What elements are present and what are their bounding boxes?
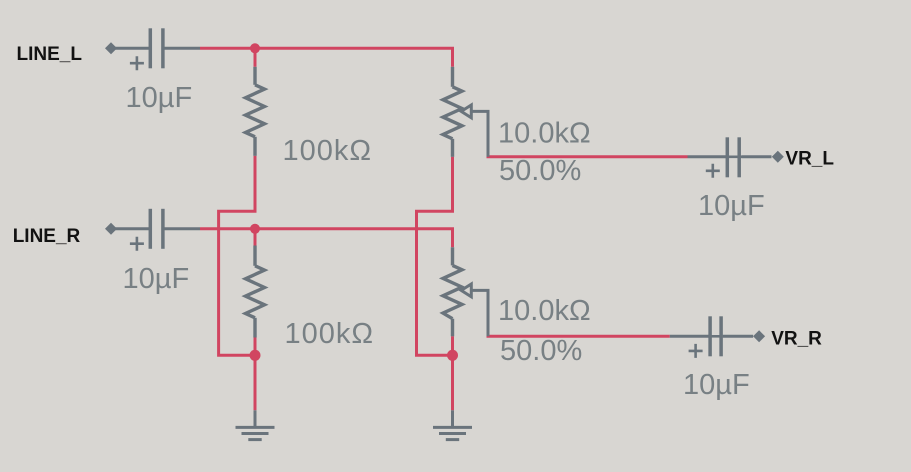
wire wiper P2 to C4 bbox=[488, 335, 670, 336]
svg-text:LINE_L: LINE_L bbox=[17, 44, 83, 65]
svg-text:10µF: 10µF bbox=[683, 369, 750, 401]
capacitor C2 (10uF output L) bbox=[688, 137, 772, 178]
terminal VR_R bbox=[753, 330, 765, 342]
svg-text:10µF: 10µF bbox=[123, 263, 190, 295]
potentiometer P2 bbox=[443, 247, 488, 336]
node B junction dot bbox=[250, 224, 260, 234]
ground junction dot left bbox=[250, 350, 261, 361]
wire net A top: C1 to pot P1 bbox=[200, 48, 453, 67]
svg-text:LINE_R: LINE_R bbox=[13, 226, 81, 247]
node A junction dot bbox=[250, 43, 260, 53]
wire ground return R1 bbox=[219, 156, 255, 410]
svg-text:10.0kΩ: 10.0kΩ bbox=[498, 295, 591, 327]
svg-text:50.0%: 50.0% bbox=[499, 155, 581, 187]
capacitor C4 (10uF output R) bbox=[670, 316, 753, 358]
wire ground return P1 bbox=[417, 157, 453, 410]
potentiometer P1 bbox=[443, 67, 488, 157]
terminal LINE_L bbox=[105, 42, 117, 54]
terminal VR_L bbox=[772, 151, 784, 163]
svg-text:10µF: 10µF bbox=[126, 82, 193, 114]
ground junction dot right bbox=[447, 350, 458, 361]
wire wiper P1 to C2 bbox=[488, 156, 688, 157]
svg-text:10µF: 10µF bbox=[698, 190, 765, 222]
svg-text:10.0kΩ: 10.0kΩ bbox=[498, 117, 591, 149]
ground symbol right bbox=[433, 410, 472, 439]
svg-text:50.0%: 50.0% bbox=[500, 335, 582, 367]
capacitor C3 (10uF input R) bbox=[114, 209, 200, 251]
resistor R1 100k bbox=[246, 67, 265, 156]
ground symbol left bbox=[236, 410, 275, 439]
svg-text:VR_L: VR_L bbox=[785, 148, 834, 169]
resistor R2 100k bbox=[246, 246, 265, 338]
terminal LINE_R bbox=[105, 223, 117, 235]
svg-text:100kΩ: 100kΩ bbox=[283, 135, 373, 167]
svg-text:VR_R: VR_R bbox=[771, 328, 822, 349]
svg-text:100kΩ: 100kΩ bbox=[285, 318, 375, 350]
wire net B: C3 to pot P2 bbox=[200, 229, 453, 248]
capacitor C1 (10uF input L) bbox=[114, 28, 200, 70]
